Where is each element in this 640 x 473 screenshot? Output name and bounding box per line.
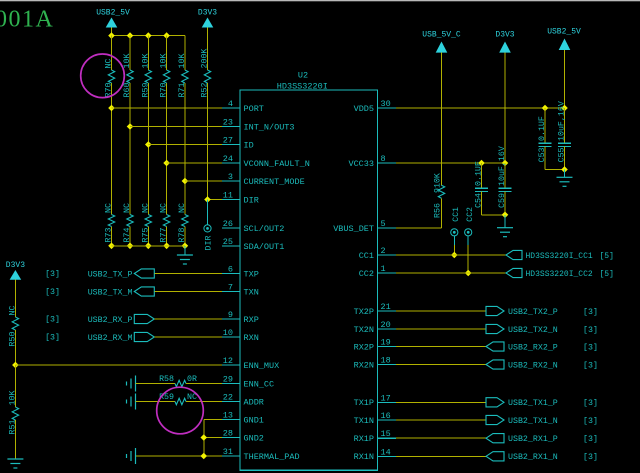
value HD3SS3220I [277, 82, 328, 92]
svg-text:R59: R59 [141, 83, 150, 98]
ground (pulldown bank) [177, 246, 193, 264]
junction bus/R60 [127, 32, 134, 39]
wire R58 to ENN_CC [186, 383, 222, 385]
resistor R77 NC [160, 203, 170, 242]
port flag USB2_TX1_P [486, 398, 598, 409]
svg-text:NC: NC [178, 203, 187, 213]
svg-text:USB2_5V: USB2_5V [96, 9, 130, 18]
pin 17 TX1P [354, 393, 396, 408]
wire column x=111.5 [111, 36, 113, 246]
junction C55/ground [561, 166, 568, 173]
svg-text:USB2_TX_P: USB2_TX_P [88, 270, 133, 279]
svg-text:RX2P: RX2P [354, 342, 374, 352]
svg-text:910K: 910K [434, 173, 443, 193]
svg-text:6: 6 [228, 265, 233, 275]
svg-text:SDA/OUT1: SDA/OUT1 [244, 242, 285, 252]
svg-text:[3]: [3] [583, 325, 598, 335]
wire R59 to ADDR [186, 401, 222, 403]
port flag USB2_RX2_P [486, 342, 598, 353]
svg-text:USB2_TX2_N: USB2_TX2_N [508, 326, 558, 335]
ground (C53/C55) [557, 170, 573, 187]
svg-text:10K: 10K [178, 54, 187, 69]
pin 1 CC2 [359, 264, 396, 279]
junction VCC33/C59 [502, 160, 509, 167]
svg-text:31: 31 [223, 447, 233, 457]
svg-text:18: 18 [381, 356, 391, 366]
svg-text:22: 22 [223, 393, 233, 403]
svg-text:USB2_RX2_N: USB2_RX2_N [508, 361, 558, 370]
port flag USB2_TX1_N [486, 415, 598, 426]
pin 31 THERMAL_PAD [222, 447, 300, 462]
svg-text:HD3SS3220I_CC1: HD3SS3220I_CC1 [526, 252, 593, 261]
svg-text:ENN_MUX: ENN_MUX [244, 361, 280, 371]
svg-text:TX1P: TX1P [354, 398, 374, 408]
wire to pin row y=144.5 [148, 144, 222, 146]
pin 28 GND2 [222, 429, 264, 444]
svg-text:ENN_CC: ENN_CC [244, 379, 275, 389]
wire USB2_TX_P to pin [154, 273, 222, 275]
wire to pin row y=108.0 [112, 107, 223, 109]
svg-text:10K: 10K [123, 54, 132, 69]
svg-text:DIR: DIR [244, 195, 259, 205]
svg-text:C59: C59 [498, 193, 507, 208]
designator U2 [298, 71, 308, 81]
wire USB2_TX2_P [396, 310, 486, 312]
junction bottom line [108, 243, 115, 250]
svg-text:GND2: GND2 [244, 433, 264, 443]
svg-text:0.1UF: 0.1UF [538, 116, 547, 141]
svg-text:[5]: [5] [600, 270, 614, 279]
svg-text:26: 26 [223, 219, 233, 229]
svg-text:3: 3 [228, 172, 233, 182]
svg-text:USB2_5V: USB2_5V [547, 28, 581, 37]
svg-text:ID: ID [244, 140, 254, 150]
resistor R58 0R [159, 375, 197, 387]
svg-text:TX2N: TX2N [354, 325, 374, 335]
junction ENN_MUX [12, 362, 19, 369]
junction VCC33/C54 [478, 160, 485, 167]
svg-text:TX1N: TX1N [354, 416, 374, 426]
svg-text:[3]: [3] [583, 398, 598, 408]
svg-text:U2: U2 [298, 71, 308, 81]
svg-text:R50: R50 [8, 332, 17, 347]
wire to pin row y=126.5 [130, 126, 222, 128]
test point CC1 [451, 207, 462, 255]
resistor R70 10K [160, 54, 170, 98]
resistor R74 NC [123, 203, 133, 242]
svg-text:VCC33: VCC33 [348, 159, 374, 169]
svg-text:R71: R71 [178, 83, 187, 98]
junction C59/ground [502, 212, 509, 219]
svg-text:R58: R58 [159, 375, 174, 384]
wire USB2_TX2_N [396, 328, 486, 330]
svg-text:NC: NC [187, 393, 197, 402]
pin 6 TXP [222, 265, 259, 280]
wire VDD5 [396, 107, 565, 109]
resistor R50 NC [8, 306, 18, 347]
svg-text:CC1: CC1 [452, 207, 461, 222]
svg-text:10: 10 [223, 328, 233, 338]
junction column/pin wire [182, 178, 189, 185]
svg-text:USB2_TX1_N: USB2_TX1_N [508, 417, 558, 426]
port flag HD3SS3220I_CC1 [506, 250, 614, 261]
pin 15 RX1P [354, 429, 396, 444]
port flag HD3SS3220I_CC2 [506, 268, 614, 279]
wire ENN_MUX [15, 364, 222, 366]
resistor R78 NC [178, 203, 188, 242]
svg-text:CURRENT_MODE: CURRENT_MODE [244, 177, 305, 187]
ground (R59) [127, 394, 136, 410]
port flag USB2_RX_P [45, 314, 154, 325]
svg-text:17: 17 [381, 393, 391, 403]
port flag USB2_TX_P [45, 269, 154, 280]
wire USB2_RX2_N [396, 364, 486, 366]
wire column x=166.6 [166, 36, 168, 246]
svg-text:7: 7 [228, 283, 233, 293]
junction CC1 [451, 252, 458, 259]
svg-text:[3]: [3] [45, 269, 60, 279]
svg-text:10uF,16V: 10uF,16V [558, 101, 567, 141]
svg-text:VCONN_FAULT_N: VCONN_FAULT_N [244, 159, 310, 169]
wire GND2 [204, 437, 222, 439]
port flag USB2_RX1_P [486, 434, 598, 445]
pin 12 ENN_MUX [222, 356, 279, 371]
svg-text:INT_N/OUT3: INT_N/OUT3 [244, 122, 295, 132]
capacitor C53 0.1UF [538, 108, 552, 170]
svg-text:10K: 10K [160, 54, 169, 69]
op IC U2 HD3SS3220I body [240, 90, 378, 470]
wire CC to flag [396, 254, 506, 256]
svg-text:19: 19 [381, 338, 391, 348]
wire C54/C59 bottoms [482, 214, 506, 216]
resistor R59 NC [159, 393, 197, 405]
sheet title 001A [0, 7, 54, 33]
svg-text:10K: 10K [8, 391, 17, 406]
wire USB2_RX1_P [396, 437, 486, 439]
capacitor C55 10uF,16V [558, 101, 572, 169]
no-ERC marker DIR [204, 200, 211, 232]
junction bus/R70 [108, 32, 115, 39]
pin 10 RXN [222, 328, 259, 343]
net label DIR [205, 236, 214, 251]
svg-text:28: 28 [223, 429, 233, 439]
wire CC to flag [396, 272, 506, 274]
power USB_5V_C [422, 30, 461, 185]
svg-text:NC: NC [105, 203, 114, 213]
svg-text:0R: 0R [187, 375, 197, 384]
svg-text:RXN: RXN [244, 333, 259, 343]
wire R52 to DIR pin [208, 83, 223, 200]
svg-text:C54: C54 [475, 193, 484, 208]
svg-text:15: 15 [381, 429, 391, 439]
junction column/pin wire [145, 141, 152, 148]
junction THERMAL_PAD [200, 453, 207, 460]
wire R51 to ground [14, 420, 16, 459]
resistor R56 910K [434, 173, 445, 218]
svg-text:TXN: TXN [244, 287, 259, 297]
power USB2_5V (top left) [96, 9, 130, 36]
wire THERMAL_PAD [136, 455, 223, 457]
svg-text:R77: R77 [160, 228, 169, 243]
svg-text:12: 12 [223, 356, 233, 366]
svg-text:CC2: CC2 [359, 269, 374, 279]
svg-text:D3V3: D3V3 [6, 261, 25, 270]
wire USB2_RX_M to pin [154, 336, 222, 338]
svg-text:NC: NC [105, 59, 114, 69]
svg-text:GND1: GND1 [244, 415, 264, 425]
svg-text:USB2_TX1_P: USB2_TX1_P [508, 399, 558, 408]
svg-text:21: 21 [381, 302, 391, 312]
junction bottom line [163, 243, 170, 250]
resistor R60 10K [123, 54, 133, 98]
svg-text:CC1: CC1 [359, 251, 374, 261]
pin 11 DIR [222, 191, 259, 206]
svg-text:[3]: [3] [45, 333, 60, 343]
svg-text:R70: R70 [160, 83, 169, 98]
wire pulldown bottom line [112, 245, 185, 247]
test point CC2 [465, 207, 475, 273]
port flag USB2_RX1_N [486, 452, 598, 463]
port flag USB2_RX_M [45, 332, 154, 343]
svg-text:8: 8 [381, 154, 386, 164]
resistor R75 NC [141, 203, 151, 242]
pin 13 GND1 [222, 411, 264, 426]
pin 8 VCC33 [348, 154, 396, 169]
svg-text:ADDR: ADDR [244, 397, 264, 407]
svg-text:D3V3: D3V3 [198, 9, 217, 18]
svg-text:USB2_RX1_P: USB2_RX1_P [508, 435, 558, 444]
svg-text:THERMAL_PAD: THERMAL_PAD [244, 452, 300, 462]
pin 9 RXP [222, 310, 259, 325]
wire USB2_TX1_N [396, 419, 486, 421]
wire gnd-R58 [136, 383, 176, 385]
ground (C54/C59) [497, 215, 513, 237]
pin 5 VBUS_DET [333, 219, 396, 234]
svg-text:HD3SS3220I: HD3SS3220I [277, 82, 328, 92]
pin 18 RX2N [354, 356, 396, 371]
wire column x=148.3 [147, 36, 149, 246]
pin 23 INT_N/OUT3 [222, 118, 295, 133]
wire VCC33 [396, 162, 505, 164]
svg-text:29: 29 [223, 375, 233, 385]
svg-text:USB2_TX_M: USB2_TX_M [88, 288, 133, 297]
pin 16 TX1N [354, 411, 396, 426]
junction DIR [204, 196, 211, 203]
pin 20 TX2N [354, 320, 396, 335]
wire USB2_RX1_N [396, 455, 486, 457]
svg-text:USB2_TX2_P: USB2_TX2_P [508, 308, 558, 317]
highlight circle R70 [81, 54, 125, 98]
pin 26 SCL/OUT2 [222, 219, 284, 234]
svg-text:5: 5 [381, 219, 386, 229]
pin 27 ID [222, 136, 254, 151]
svg-text:R52: R52 [201, 83, 210, 98]
svg-text:[5]: [5] [600, 252, 614, 261]
wire R56 to VBUS_DET [396, 198, 442, 228]
power D3V3 (right) [495, 30, 514, 163]
svg-text:11: 11 [223, 191, 233, 201]
svg-text:NC: NC [141, 203, 150, 213]
svg-text:10K: 10K [141, 54, 150, 69]
svg-text:R78: R78 [178, 228, 187, 243]
wire R50 to ENN_MUX [14, 330, 16, 365]
svg-text:10uF,16V: 10uF,16V [498, 146, 507, 186]
svg-text:001A: 001A [0, 7, 54, 33]
pin 3 CURRENT_MODE [222, 172, 305, 187]
resistor R70 NC [105, 59, 115, 98]
junction bottom line [182, 243, 189, 250]
svg-text:USB2_RX2_P: USB2_RX2_P [508, 343, 558, 352]
wire column x=130.0 [129, 36, 131, 246]
pin 21 TX2P [354, 302, 396, 317]
power D3V3 (top left) [198, 9, 217, 71]
port flag USB2_RX2_N [486, 360, 598, 371]
svg-text:[3]: [3] [583, 434, 598, 444]
svg-text:R51: R51 [8, 420, 17, 435]
port flag USB2_TX2_N [486, 324, 598, 335]
svg-text:20: 20 [381, 320, 391, 330]
pin 19 RX2P [354, 338, 396, 353]
wire USB2_5V bus [112, 35, 185, 37]
svg-text:VDD5: VDD5 [354, 104, 374, 114]
junction VDD5/C55 [561, 105, 568, 112]
resistor R51 10K [8, 391, 18, 435]
svg-text:C53: C53 [538, 147, 547, 162]
svg-text:R60: R60 [123, 83, 132, 98]
svg-text:R75: R75 [141, 228, 150, 243]
svg-text:NC: NC [160, 203, 169, 213]
svg-text:R74: R74 [123, 228, 132, 243]
svg-text:SCL/OUT2: SCL/OUT2 [244, 224, 285, 234]
ground (R51) [7, 459, 23, 468]
junction bottom line [145, 243, 152, 250]
wire gnd-R59 [136, 401, 176, 403]
svg-text:HD3SS3220I_CC2: HD3SS3220I_CC2 [526, 270, 593, 279]
svg-text:200K: 200K [201, 49, 210, 69]
highlight circle R59 [157, 387, 204, 434]
svg-text:NC: NC [123, 203, 132, 213]
junction bottom line [127, 243, 134, 250]
svg-text:2: 2 [381, 246, 386, 256]
svg-text:VBUS_DET: VBUS_DET [333, 224, 374, 234]
junction column/pin wire [163, 160, 170, 167]
junction CC2 [465, 270, 472, 277]
svg-text:1: 1 [381, 264, 386, 274]
wire USB2_RX_P to pin [154, 318, 222, 320]
ground (THERMAL_PAD) [127, 448, 136, 464]
svg-text:30: 30 [381, 99, 391, 109]
svg-text:C55: C55 [558, 147, 567, 162]
junction column/pin wire [108, 105, 115, 112]
junction VDD5/C53 [542, 105, 549, 112]
pin 4 PORT [222, 99, 264, 114]
junction bus/R70b [163, 32, 170, 39]
junction column/pin wire [127, 123, 134, 130]
pin 14 RX1N [354, 447, 396, 462]
ground (R58) [127, 376, 136, 392]
svg-text:TX2P: TX2P [354, 307, 374, 317]
resistor R73 NC [105, 203, 115, 242]
svg-text:USB2_RX_M: USB2_RX_M [88, 334, 133, 343]
power D3V3 (left middle) [6, 261, 25, 317]
resistor R52 200K [201, 49, 211, 98]
capacitor C54 0.1UF [475, 161, 489, 215]
svg-text:23: 23 [223, 118, 233, 128]
port flag USB2_TX2_P [486, 306, 598, 317]
svg-text:[3]: [3] [583, 342, 598, 352]
capacitor C59 10uF,16V [498, 146, 512, 215]
svg-text:USB_5V_C: USB_5V_C [422, 30, 461, 39]
port flag USB2_TX_M [45, 287, 154, 298]
resistor R71 10K [178, 54, 188, 98]
wire USB2_TX1_P [396, 401, 486, 403]
pin 25 SDA/OUT1 [222, 237, 284, 252]
svg-text:9: 9 [228, 310, 233, 320]
pin 22 ADDR [222, 393, 264, 408]
svg-text:[3]: [3] [45, 287, 60, 297]
svg-text:13: 13 [223, 411, 233, 421]
svg-text:R73: R73 [105, 228, 114, 243]
svg-text:PORT: PORT [244, 104, 264, 114]
svg-text:USB2_RX1_N: USB2_RX1_N [508, 453, 558, 462]
resistor R59 10K [141, 54, 151, 98]
wire to pin row y=181.0 [185, 180, 222, 182]
wire GND1 [204, 420, 222, 457]
svg-text:D3V3: D3V3 [495, 30, 514, 39]
svg-text:[3]: [3] [583, 307, 598, 317]
svg-text:0.1UF: 0.1UF [475, 161, 484, 186]
svg-text:25: 25 [223, 237, 233, 247]
svg-text:USB2_RX_P: USB2_RX_P [88, 316, 133, 325]
svg-text:NC: NC [8, 306, 17, 316]
junction GND2 [200, 434, 207, 441]
svg-text:DIR: DIR [205, 236, 214, 251]
svg-text:RX1P: RX1P [354, 434, 374, 444]
svg-text:[3]: [3] [583, 416, 598, 426]
svg-text:TXP: TXP [244, 269, 259, 279]
pin 7 TXN [222, 283, 259, 298]
svg-text:4: 4 [228, 99, 233, 109]
pin 24 VCONN_FAULT_N [222, 154, 310, 169]
wire to pin row y=163.0 [167, 162, 222, 164]
svg-text:27: 27 [223, 136, 233, 146]
power USB2_5V (right) [547, 28, 581, 109]
pin 2 CC1 [359, 246, 396, 261]
svg-text:[3]: [3] [45, 315, 60, 325]
svg-text:24: 24 [223, 154, 233, 164]
svg-text:RXP: RXP [244, 315, 259, 325]
svg-text:14: 14 [381, 447, 391, 457]
wire column x=184.9 [184, 36, 186, 246]
wire C53/C55 bottoms [545, 169, 565, 171]
wire to R51 [14, 365, 16, 407]
junction bus/R59 [145, 32, 152, 39]
svg-text:[3]: [3] [583, 452, 598, 462]
svg-text:[3]: [3] [583, 360, 598, 370]
pin 29 ENN_CC [222, 375, 274, 390]
svg-text:RX1N: RX1N [354, 452, 374, 462]
svg-text:CC2: CC2 [466, 207, 475, 222]
svg-text:16: 16 [381, 411, 391, 421]
wire USB2_TX_M to pin [154, 291, 222, 293]
pin 30 VDD5 [354, 99, 396, 114]
wire USB2_RX2_P [396, 346, 486, 348]
svg-text:RX2N: RX2N [354, 360, 374, 370]
